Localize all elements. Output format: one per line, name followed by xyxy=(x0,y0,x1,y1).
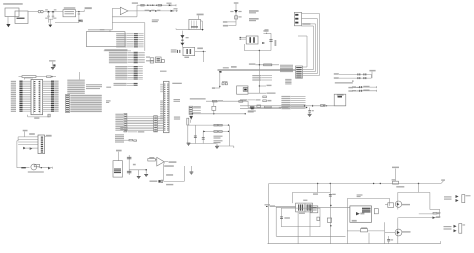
divider column xyxy=(128,155,130,175)
MCU pin stubs left xyxy=(160,83,163,85)
MCU U4 body xyxy=(164,81,170,132)
net flag +5V xyxy=(166,174,173,176)
wire xyxy=(88,29,110,31)
ground xyxy=(216,144,218,146)
label rows xyxy=(120,127,127,128)
oscillator circuit xyxy=(17,167,30,169)
wire xyxy=(201,20,203,22)
capacitor C13 xyxy=(387,238,390,241)
net flag +5V xyxy=(369,70,375,72)
resistor pack RN3 xyxy=(296,66,303,78)
wire xyxy=(49,18,54,20)
row block B labels xyxy=(109,52,127,53)
cap row 4 xyxy=(352,90,356,91)
inner rail xyxy=(292,192,330,194)
header J2 pin labels left xyxy=(11,81,16,82)
ground xyxy=(138,170,140,176)
rail wire xyxy=(287,105,346,107)
dense net label block lower xyxy=(70,95,102,96)
label text right of MCU xyxy=(172,83,182,84)
transistor Q1 xyxy=(189,116,193,120)
flag xyxy=(212,87,215,89)
wire xyxy=(129,169,146,171)
diode D2 xyxy=(152,4,154,6)
wire xyxy=(55,22,79,24)
component pair xyxy=(129,139,133,141)
faint text xyxy=(160,71,167,72)
junction xyxy=(78,11,79,12)
module box outline xyxy=(86,32,125,47)
capacitor C4 xyxy=(52,15,54,16)
part number text xyxy=(249,18,259,20)
wire node xyxy=(193,113,247,115)
series mark xyxy=(311,105,314,107)
text xyxy=(248,111,254,112)
label text xyxy=(174,117,180,118)
wire stubs xyxy=(240,37,242,38)
ground xyxy=(190,166,192,171)
top rail xyxy=(269,183,441,185)
component cluster xyxy=(156,57,162,63)
resistor R3 xyxy=(235,16,238,19)
resistor network RN1 xyxy=(124,114,127,132)
blob xyxy=(251,108,254,110)
net flag xyxy=(23,130,28,132)
wire xyxy=(228,125,230,146)
wire row mid xyxy=(240,105,287,107)
capacitor C5 xyxy=(78,12,80,14)
wire xyxy=(28,11,38,13)
row block D labels xyxy=(115,66,127,67)
wire xyxy=(176,28,189,30)
op-amp U5 xyxy=(157,157,164,166)
header J2 top bracket xyxy=(24,78,26,80)
component xyxy=(250,106,254,108)
cap on rail drop xyxy=(329,184,331,244)
wire stubs into T1 xyxy=(270,205,296,207)
transformer T1 xyxy=(296,203,313,212)
component xyxy=(317,217,320,221)
diode arrow xyxy=(262,42,265,44)
crystal module Y1 xyxy=(183,47,195,55)
vertical net xyxy=(258,51,260,94)
wire bus c xyxy=(302,23,316,25)
net label rows xyxy=(252,75,261,76)
resistor network RN2 xyxy=(154,116,158,132)
resistor R2 xyxy=(158,4,161,6)
part number text xyxy=(249,10,259,12)
capacitor C9 xyxy=(194,125,196,143)
wire pair right xyxy=(218,68,296,70)
wire xyxy=(297,212,299,244)
resistor R10 xyxy=(327,218,331,222)
wire xyxy=(309,212,311,236)
output connector J7 xyxy=(444,196,452,197)
net flag VCC xyxy=(231,66,237,68)
net flag xyxy=(176,10,178,12)
branch xyxy=(259,85,260,86)
rail resistor R13 xyxy=(393,181,399,184)
row 2 components xyxy=(137,10,178,12)
net flag 2 xyxy=(29,133,35,135)
capacitor pair xyxy=(222,83,224,85)
title text POWER INPUT 12-24V xyxy=(3,3,23,4)
wire xyxy=(317,184,319,193)
LED D7 xyxy=(180,43,184,46)
op-amp U2 xyxy=(120,7,128,14)
wire xyxy=(76,11,85,13)
resistor R9 xyxy=(148,159,156,161)
MCU pin wires xyxy=(127,116,154,118)
ground xyxy=(49,19,51,24)
capacitor C7 xyxy=(177,50,178,53)
wire bus b xyxy=(302,18,318,20)
row pair xyxy=(114,83,127,84)
pin label texts xyxy=(115,114,123,115)
junction xyxy=(266,33,267,34)
decoupling cluster xyxy=(49,60,56,61)
ground rail xyxy=(187,125,189,142)
relay K1 coil bar xyxy=(17,18,25,19)
cap row 2 xyxy=(334,77,339,79)
feedback loop top xyxy=(398,191,430,193)
bottom rail xyxy=(268,243,441,245)
net flag +5V xyxy=(263,30,268,31)
controller parts xyxy=(310,206,318,213)
cap row 3 xyxy=(352,86,356,87)
resistor network RN4 xyxy=(189,106,192,114)
+5V flag xyxy=(83,10,85,12)
label text xyxy=(132,2,138,3)
wire row xyxy=(240,108,281,110)
net flag xyxy=(116,150,122,152)
ISP connector J6 xyxy=(38,135,45,154)
regulator U1 7805 xyxy=(63,10,76,17)
feedback wires xyxy=(419,213,440,215)
arrow mark xyxy=(201,29,204,31)
net labels xyxy=(280,65,293,66)
component xyxy=(257,105,261,107)
label text xyxy=(171,49,177,50)
row 2 xyxy=(203,130,229,132)
capacitor C2 xyxy=(52,10,54,13)
wire bus a xyxy=(302,13,320,15)
supervisor U3 box xyxy=(189,19,201,29)
junction xyxy=(48,11,49,12)
resistor R12 bottom xyxy=(347,230,360,232)
ground xyxy=(187,142,191,145)
left rail xyxy=(268,184,270,244)
label text MISO MOSI xyxy=(174,99,181,100)
wire xyxy=(43,11,63,13)
rows small xyxy=(263,96,267,98)
wire xyxy=(275,207,277,236)
floating text xyxy=(100,29,105,30)
VIN labels xyxy=(265,204,271,205)
connector J1 xyxy=(294,12,301,25)
capacitor C8 xyxy=(309,108,311,111)
wire feedback loop xyxy=(128,10,137,12)
header J2 pins left xyxy=(19,81,22,82)
resistor R1 xyxy=(141,4,144,6)
resistor R5 xyxy=(187,118,189,125)
net flag xyxy=(175,4,177,6)
small marks right of block xyxy=(106,87,111,88)
label xyxy=(223,67,229,68)
capacitor C10 xyxy=(202,131,204,143)
inline component xyxy=(321,105,326,107)
ground xyxy=(145,171,147,174)
cap row 1 xyxy=(334,73,339,75)
wire xyxy=(79,72,81,80)
header J2 body xyxy=(31,80,43,115)
wire xyxy=(384,222,386,243)
LED D5 xyxy=(234,10,238,13)
resistor R4 row xyxy=(206,100,248,102)
caption text xyxy=(28,171,44,172)
mark xyxy=(181,40,183,41)
junction xyxy=(150,5,151,6)
resistor R6 xyxy=(212,106,216,110)
diode D8 xyxy=(23,147,26,150)
wire xyxy=(111,17,113,30)
series element row xyxy=(19,76,23,78)
feedback loop xyxy=(163,162,165,164)
ground xyxy=(7,17,9,25)
row block A labels xyxy=(116,33,126,34)
mark xyxy=(352,80,354,82)
label text 2 lines xyxy=(152,19,159,20)
diode labels xyxy=(214,136,223,137)
diode D1 xyxy=(147,4,149,6)
output connector J8 xyxy=(444,226,452,227)
net flag +5V xyxy=(197,48,203,50)
wire xyxy=(228,21,236,23)
diode D9 xyxy=(30,147,33,150)
component xyxy=(239,101,243,103)
wire xyxy=(248,92,266,94)
wires into connector xyxy=(18,136,38,138)
resistor R7 R8 xyxy=(214,124,218,126)
junction blob xyxy=(219,71,221,73)
wire xyxy=(195,51,206,53)
rail end flag xyxy=(441,181,444,184)
capacitor C11 electrolytic xyxy=(158,180,160,183)
capacitor C6 electrolytic xyxy=(78,20,82,22)
diode D3 xyxy=(169,4,171,6)
LED D5 column net flag xyxy=(234,2,239,3)
wire xyxy=(112,22,145,24)
fuse F1 xyxy=(38,10,41,13)
PWM IC U6 xyxy=(350,206,372,222)
label text xyxy=(303,23,311,25)
left leg xyxy=(16,141,18,168)
MCU pin numbers xyxy=(160,101,163,102)
wire xyxy=(228,24,236,26)
feed flag xyxy=(394,169,396,182)
flag rows xyxy=(348,87,353,88)
wire xyxy=(181,31,183,48)
wire xyxy=(219,72,221,88)
relay K1 contact box xyxy=(15,11,28,24)
capacitor C1 xyxy=(48,10,50,13)
RC filter wires xyxy=(188,124,230,126)
wire L_B xyxy=(248,107,307,109)
wire bus e xyxy=(298,35,307,37)
wire loop xyxy=(243,44,245,51)
node row top xyxy=(137,4,176,6)
diode D4 xyxy=(171,10,173,12)
capacitor C12 xyxy=(280,216,283,219)
oscillator parts xyxy=(146,57,150,58)
dense net label block upper xyxy=(67,80,85,81)
capacitor C14 xyxy=(270,33,272,50)
relay K1 box xyxy=(5,8,19,17)
sensor J5 box xyxy=(113,161,123,177)
wire bus d xyxy=(302,25,314,27)
small text xyxy=(265,29,269,30)
wire xyxy=(45,135,52,137)
optocoupler U8 box xyxy=(246,36,258,44)
capacitor C3 xyxy=(48,15,50,16)
relay K2 box xyxy=(334,94,346,106)
net label column xyxy=(281,96,290,97)
section title text xyxy=(335,82,353,83)
snubber loop box xyxy=(281,208,320,227)
text row xyxy=(190,98,206,99)
net flag xyxy=(197,14,204,16)
optocoupler U7 xyxy=(388,203,394,208)
TL431 Q2 xyxy=(395,229,402,236)
junction xyxy=(219,86,220,87)
input parts xyxy=(266,206,268,207)
connector J3 black square xyxy=(237,86,248,94)
wire xyxy=(247,101,249,107)
header J2 bottom bracket xyxy=(27,115,29,117)
LED D6 xyxy=(180,35,184,38)
row block E xyxy=(115,134,124,135)
output wire xyxy=(164,161,168,163)
header J2 pins right xyxy=(51,81,54,82)
resistor R11 xyxy=(374,209,378,214)
top row xyxy=(249,63,256,64)
net label rows below pack xyxy=(285,79,291,80)
resistor network RN5 xyxy=(66,95,70,113)
secondary loop xyxy=(347,198,389,200)
caption row xyxy=(104,49,127,51)
